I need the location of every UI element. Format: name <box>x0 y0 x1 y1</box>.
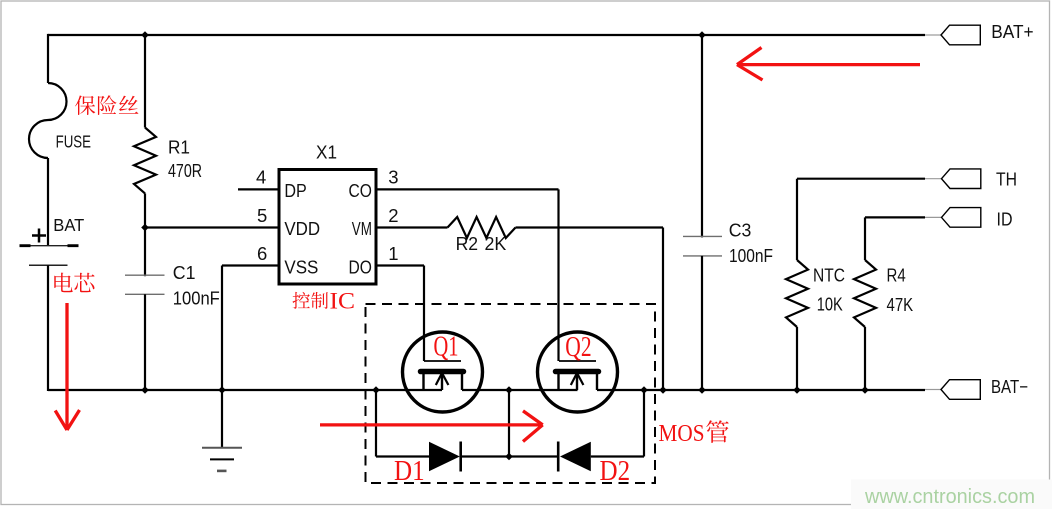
junction: middle drop / diode line <box>505 453 513 461</box>
annotation 电芯 (battery cell) <box>54 273 72 293</box>
svg-text:3: 3 <box>388 166 398 187</box>
svg-text:www.cntronics.com: www.cntronics.com <box>864 486 1035 508</box>
terminal BAT+ <box>941 25 980 45</box>
wire: VDD line <box>145 226 279 228</box>
svg-text:R1: R1 <box>168 137 190 158</box>
capacitor C1 100nF <box>144 228 146 277</box>
svg-text:IC: IC <box>330 288 356 313</box>
svg-text:R4: R4 <box>887 265 906 286</box>
svg-text:5: 5 <box>257 205 267 226</box>
junction: top rail / C3 <box>698 31 706 39</box>
svg-text:ID: ID <box>997 209 1013 230</box>
wire: VSS to ground <box>222 266 279 448</box>
junction: C3 / BAT- rail <box>698 386 706 394</box>
svg-text:6: 6 <box>257 243 267 264</box>
wire: BAT+ top rail <box>48 34 925 36</box>
ic pin 4 DP <box>238 188 279 190</box>
svg-text:R2: R2 <box>456 233 479 254</box>
ground <box>202 447 242 449</box>
resistor NTC 10K <box>796 179 798 260</box>
diode D1 <box>429 442 460 471</box>
wire: DO to Q1 gate <box>376 266 424 362</box>
wire: fuse to battery <box>47 158 49 246</box>
svg-text:VSS: VSS <box>284 257 318 278</box>
svg-text:2K: 2K <box>485 233 507 254</box>
svg-text:D2: D2 <box>600 456 631 487</box>
svg-text:VM: VM <box>352 218 372 239</box>
diode D2 <box>560 442 591 471</box>
watermark <box>851 480 1052 509</box>
junction: R1 / C1 / VDD <box>141 224 149 232</box>
wire: left branch from BAT+ rail to fuse <box>47 34 49 83</box>
svg-text:4: 4 <box>256 166 266 187</box>
svg-text:X1: X1 <box>316 141 337 162</box>
wire: drops from BAT- rail to diode line <box>376 390 644 457</box>
svg-text:BAT+: BAT+ <box>991 21 1033 42</box>
fuse FUSE <box>29 83 67 158</box>
svg-text:CO: CO <box>349 180 372 201</box>
wire: CO to Q2 gate <box>376 189 559 361</box>
svg-text:DO: DO <box>349 257 372 278</box>
terminal TH <box>942 169 981 189</box>
svg-text:Q1: Q1 <box>434 332 459 363</box>
terminal ID <box>942 208 981 228</box>
capacitor C3 100nF <box>701 35 703 237</box>
wire: battery to BAT- rail <box>47 265 49 391</box>
svg-text:2: 2 <box>388 205 398 226</box>
wire: diode line <box>376 455 644 457</box>
svg-text:47K: 47K <box>887 294 914 315</box>
transistor Q2 (MOSFET) <box>538 332 618 412</box>
resistor R2 2K <box>376 226 448 228</box>
svg-text:470R: 470R <box>168 160 202 181</box>
annotation 保险丝 (fuse) <box>75 95 95 115</box>
resistor R4 47K <box>864 217 866 260</box>
svg-text:DP: DP <box>284 180 306 201</box>
resistor R1 470R <box>144 35 146 128</box>
wire: TH line <box>797 178 925 180</box>
transistor Q1 (MOSFET) <box>403 332 483 412</box>
terminal BAT- <box>941 380 980 400</box>
svg-text:TH: TH <box>996 169 1017 190</box>
svg-text:10K: 10K <box>817 294 844 315</box>
svg-text:FUSE: FUSE <box>56 132 91 152</box>
battery BAT <box>20 245 79 247</box>
svg-text:Q2: Q2 <box>565 332 591 363</box>
svg-text:C3: C3 <box>729 219 752 240</box>
junction: C1 / BAT- rail <box>141 386 149 394</box>
svg-text:100nF: 100nF <box>729 245 773 266</box>
annotation arrow: charge current (left, top right) <box>739 63 920 66</box>
svg-text:MOS: MOS <box>659 420 705 447</box>
svg-text:BAT: BAT <box>53 215 84 235</box>
svg-text:1: 1 <box>388 243 398 264</box>
annotation 控制IC (control IC) <box>293 292 310 309</box>
svg-text:100nF: 100nF <box>173 288 220 309</box>
svg-text:BAT−: BAT− <box>991 376 1028 397</box>
svg-text:NTC: NTC <box>813 265 845 286</box>
wire: BAT- bottom rail <box>48 389 925 391</box>
wire: R2 to BAT- rail <box>662 228 664 391</box>
svg-text:D1: D1 <box>394 456 425 487</box>
ic X1 (control IC) <box>279 170 376 285</box>
dashed box: MOS pair enclosure <box>366 304 656 483</box>
junction: VSS / BAT- rail <box>218 386 226 394</box>
wire: ID line <box>865 216 925 218</box>
svg-text:C1: C1 <box>173 262 196 283</box>
annotation arrow: discharge (down, left side) <box>65 303 68 428</box>
svg-text:VDD: VDD <box>284 218 320 239</box>
annotation arrow: current through MOS (right, middle) <box>320 423 540 426</box>
junction: top rail / R1 <box>141 31 149 39</box>
